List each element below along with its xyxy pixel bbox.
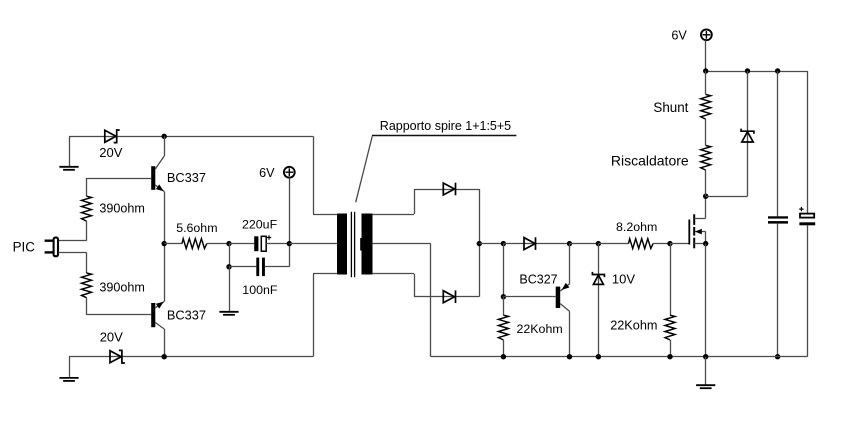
svg-text:5.6ohm: 5.6ohm [176,221,217,235]
zener diode D4 10V [592,244,604,357]
wire Q2 collector [155,323,164,357]
svg-text:PIC: PIC [13,240,36,255]
connector PIC [45,238,58,257]
svg-text:6V: 6V [259,166,275,180]
diode D1 rectifier top [443,183,455,196]
wire top-right rail [706,71,808,73]
node supply junction [703,68,708,73]
label 6V left [259,166,275,180]
wire node E to node F [570,243,599,245]
svg-text:20V: 20V [100,330,123,345]
svg-text:20V: 20V [99,145,122,160]
label 5.6ohm [176,221,217,235]
svg-text:390ohm: 390ohm [99,280,145,294]
capacitor C2 100nF [229,244,290,277]
zener diode 20V upper [105,130,120,143]
wire secondary bottom [373,274,415,297]
label BC327 [519,273,557,287]
wire bottom-left rail [69,356,313,358]
wire ground stem right [705,357,707,385]
label 22Kohm left [517,322,563,336]
mosfet Q4 channel [693,214,695,248]
wire Q3 emitter [560,244,569,291]
arrow Q3 emitter [562,283,570,290]
resistor R6 22Kohm right [665,244,675,357]
resistor R2 390ohm lower [82,273,92,315]
label 390ohm upper [99,202,145,216]
wire ground stem lower-left [69,357,71,378]
wire rectifier cathodes [479,189,481,297]
label 10V [612,272,635,287]
arrow Q4 body [695,229,702,235]
label Rapporto spire [380,119,511,133]
ground caps [219,312,238,315]
node cap junction top [775,68,780,73]
node diode top junction [745,68,750,73]
wire top rectifier row [414,189,479,191]
resistor R1 390ohm upper [82,178,92,241]
label 6V right [671,28,687,42]
wire Q3 collector [560,304,569,357]
label 100nF [242,283,278,297]
label PIC [13,240,36,255]
node G gate junction [667,241,672,246]
wire Q1 emitter [155,185,164,244]
wire Q4 source [694,243,706,245]
capacitor C3 [768,71,788,357]
svg-text:Shunt: Shunt [653,100,688,115]
wire primary center tap [289,243,337,245]
wire primary bottom [313,274,337,357]
label 390ohm lower [99,280,145,294]
wire ground stem caps [229,267,231,312]
wire 6V right feed [705,40,707,71]
ground right [696,385,715,388]
power 6V left symbol [284,167,295,178]
capacitor C1 220uF [229,235,289,251]
node Q4 source [703,241,708,246]
arrow Q2 emitter [156,302,164,309]
node E emitter junction [567,241,572,246]
transformer T1 primary winding [337,214,347,275]
mosfet Q4 gate [688,220,690,245]
wire drain row [706,196,748,198]
node collector Q1 junction [162,134,167,139]
svg-text:6V: 6V [671,28,687,42]
label pointer line [356,136,517,203]
wire secondary top [373,189,415,215]
node cap junction bottom [775,354,780,359]
wire Q4 drain [694,196,706,218]
wire secondary center tap [373,244,431,357]
svg-text:Rapporto spire 1+1:5+5: Rapporto spire 1+1:5+5 [380,119,511,133]
transistor Q3 BC327 body [556,287,561,308]
label 20V lower [100,330,123,345]
svg-text:BC337: BC337 [167,307,206,322]
wire PIC pin2 [58,252,86,273]
label 22Kohm right [610,319,657,333]
wire node D down to base [503,244,505,297]
label 8.2ohm [616,220,657,234]
transformer T1 secondary winding [360,214,372,275]
transistor Q2 BC337 body [151,303,155,327]
svg-text:390ohm: 390ohm [99,202,145,216]
label BC337 upper [167,170,206,185]
node rectifier output [477,241,482,246]
wire Q4 body [695,232,706,244]
svg-text:22Kohm: 22Kohm [610,319,657,333]
wire ground stem upper-left [69,136,71,166]
svg-text:BC337: BC337 [167,170,206,185]
ground upper-left [59,167,78,170]
node C 6V junction [287,241,292,246]
node drain junction [703,194,708,199]
label Riscaldatore [611,152,689,168]
node D [501,241,506,246]
svg-text:8.2ohm: 8.2ohm [616,220,657,234]
wire gate [670,243,689,245]
node F zener junction [596,241,601,246]
node Q2 collector junction [162,354,167,359]
transistor Q1 BC337 body [151,166,155,190]
resistor R5 22Kohm left [498,297,508,357]
node B [226,264,231,269]
zener diode 20V lower [110,350,125,363]
wire top-left rail [69,136,313,138]
wire bottom rectifier row [414,296,479,298]
svg-text:220uF: 220uF [242,217,278,231]
svg-text:10V: 10V [612,272,635,287]
wire Q2 emitter [155,244,164,308]
label 220uF [242,217,278,231]
ground lower-left [59,378,78,381]
wire node A down [229,244,231,267]
node A [226,241,231,246]
node H base junction [501,294,506,299]
arrow Q1 emitter [156,184,164,191]
wire PIC pin1 [58,240,86,242]
svg-text:BC327: BC327 [519,273,557,287]
wire source down [705,244,707,357]
wire rectifier to node D [479,243,503,245]
wire bottom-right rail [431,356,808,358]
transformer T1 core [351,212,354,277]
wire Q3 base [503,296,555,298]
resistor R3 5.6ohm [164,239,229,249]
resistor R4 8.2ohm [598,239,670,249]
capacitor C4 polarized [799,71,815,357]
label Shunt [653,100,688,115]
power 6V right symbol [701,29,712,40]
svg-text:Riscaldatore: Riscaldatore [611,152,689,168]
svg-text:22Kohm: 22Kohm [517,322,563,336]
diode D5 freewheel [741,71,754,196]
node emitters junction [162,241,167,246]
wire primary top [313,136,337,214]
wire Q1 base [87,178,152,180]
diode D2 rectifier bottom [443,290,455,303]
wire Q1 collector [155,136,164,169]
svg-text:100nF: 100nF [242,283,278,297]
resistor R8 Riscaldatore [701,146,711,197]
wire 6V left feed [289,178,291,244]
label 20V upper [99,145,122,160]
node bottom junctions [501,354,709,359]
wire Q2 base [87,314,152,316]
diode D3 series [503,237,569,250]
resistor R7 Shunt [701,71,711,146]
label BC337 lower [167,307,206,322]
